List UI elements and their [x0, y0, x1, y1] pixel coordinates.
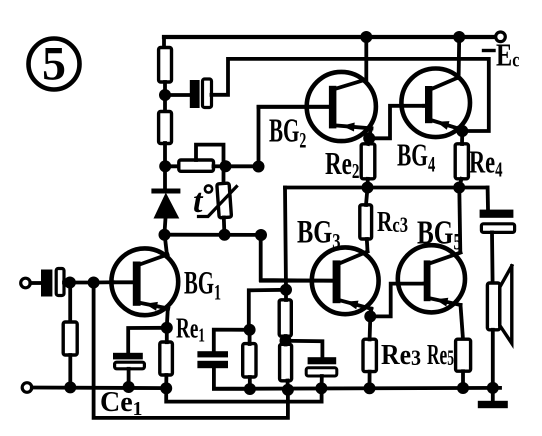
wire node J to R6: [248, 330, 252, 344]
node P7 junction (speaker): [487, 382, 499, 394]
resistor R4 (bias upper): [279, 300, 291, 336]
wire BG5 collector to node P9: [459, 188, 460, 252]
wire thermistor Rt to node F: [222, 218, 226, 235]
wire top supply rail: [164, 35, 496, 39]
wire R4 to node I: [284, 336, 288, 341]
node P6 junction (Re5 bottom): [457, 382, 469, 394]
transistor BG3: [261, 247, 379, 314]
node P5 junction (Re3 bottom): [364, 382, 376, 394]
thermistor Rt diagonal stroke: [199, 187, 237, 217]
node P4 junction (C4 bottom): [315, 382, 327, 394]
wire BG4 emitter to node E4: [458, 128, 462, 131]
wire node I to capacitor C4: [286, 341, 323, 358]
wire BG2 emitter to node E2: [369, 128, 371, 137]
label BG4: [397, 137, 435, 177]
wire node H to R4: [284, 290, 288, 300]
terminal -Ec (open circle): [496, 32, 506, 42]
wire node C to node D: [226, 164, 259, 168]
wire node N to BG1 base: [94, 280, 113, 284]
svg-text:BG1: BG1: [184, 264, 221, 306]
label Re3: [381, 339, 421, 370]
bypass loop over R3: [196, 145, 224, 166]
capacitor C3 plate (outlined): [56, 269, 64, 296]
wire BG3 emitter to node W: [368, 309, 373, 316]
label BG5: [417, 214, 462, 255]
svg-text:t: t: [193, 183, 204, 220]
node C junction: [220, 160, 232, 172]
wire R7 to bottom rail: [68, 355, 72, 387]
wire R2 to node B: [163, 143, 167, 166]
resistor Re3: [363, 339, 376, 371]
capacitor Ce1 plate (filled): [113, 353, 143, 360]
node I junction: [280, 335, 292, 347]
svg-text:Re4: Re4: [469, 144, 503, 182]
wire R1 to node A: [163, 82, 167, 95]
terminal ground (open circle): [22, 383, 32, 393]
wire C5 to speaker: [490, 232, 494, 283]
wire C1 to second rail: [212, 59, 489, 131]
capacitor C5 plate (upper, filled): [480, 210, 514, 218]
wire BG2 collector to top rail: [364, 38, 368, 79]
wire node E2 to Re2: [368, 138, 369, 144]
node P8 junction (Re2 bottom / Rc3 top): [362, 182, 374, 194]
node A junction: [159, 89, 171, 101]
wire node W to BG5 base: [370, 284, 425, 317]
wire feedback node N to node P3: [94, 283, 288, 418]
node P3 junction: [282, 384, 294, 396]
capacitor C3 plate (filled): [41, 270, 52, 297]
resistor R1 (top left): [159, 48, 172, 83]
ground symbol: [478, 401, 508, 408]
wire from top rail to resistor R1: [162, 37, 166, 49]
wire input terminal to C3: [30, 281, 41, 285]
node N junction: [88, 277, 100, 289]
transistor BG1: [111, 248, 178, 315]
wire node M to node N: [70, 281, 94, 285]
node L junction: [123, 381, 135, 393]
label Ce1: [100, 387, 142, 420]
capacitor C5 plate (lower, outlined): [481, 224, 514, 233]
node F junction (thermistor bottom): [219, 229, 231, 241]
node E junction: [159, 229, 171, 241]
wire BG1 emitter to node O: [167, 309, 168, 328]
resistor Re1: [160, 342, 173, 375]
wire bottom-right ground rail: [214, 386, 500, 391]
transistor BG5: [398, 245, 465, 312]
label -Ec: [496, 38, 519, 73]
label Re1: [176, 313, 205, 347]
wire node J to C2 top plate: [214, 330, 250, 351]
node O junction: [161, 322, 173, 334]
svg-text:Ce1: Ce1: [100, 387, 142, 420]
wire Rc3 to BG3 collector: [365, 239, 370, 251]
node P9 junction (Re4 bottom / BG5 collector): [453, 182, 465, 194]
label t degrees: [193, 183, 212, 220]
wire BG1 collector to node E: [165, 236, 167, 254]
wire BG5 emitter down to Re5: [461, 305, 464, 339]
wire node P7 to ground: [491, 388, 495, 400]
node V junction (top rail): [453, 31, 465, 43]
wire node D to BG2 base: [259, 107, 331, 167]
wire C2 to node P2: [214, 368, 250, 389]
capacitor C1 plate (filled): [190, 80, 200, 108]
capacitor C2 plate (lower): [197, 361, 228, 368]
svg-text:BG4: BG4: [397, 137, 435, 177]
wire rail node E to node G: [165, 233, 262, 237]
capacitor Ce1 plate (outlined): [115, 362, 145, 369]
node M junction: [64, 277, 76, 289]
wire Re2 to node P8: [366, 179, 370, 187]
label BG2: [269, 113, 306, 154]
capacitor C4 plate (lower, outlined): [306, 368, 337, 376]
svg-text:Re2: Re2: [325, 146, 359, 182]
wire node A to capacitor C1: [165, 93, 189, 97]
wire C3 to node M: [64, 281, 70, 285]
label Re4: [469, 144, 503, 182]
resistor Re4: [455, 144, 468, 179]
label Re5: [427, 340, 454, 371]
resistor R7 (input shunt): [63, 322, 77, 355]
capacitor C4 plate (upper, filled): [308, 357, 337, 364]
capacitor C2 plate (upper): [197, 351, 228, 357]
wire Re1 to node P1: [164, 375, 168, 388]
wire R5 to node P3: [286, 381, 290, 390]
capacitor C1 plate (outlined): [203, 79, 212, 108]
node U junction (top rail): [360, 31, 372, 43]
wire Re3 to node P5: [368, 372, 372, 388]
diode VD1 cathode bar: [151, 189, 180, 194]
wire C4 to node P4: [320, 376, 324, 389]
svg-text:Re3: Re3: [381, 339, 421, 370]
terminal input (open circle): [21, 278, 31, 288]
node P1 junction (Re1 bottom): [160, 382, 172, 394]
label Re2: [325, 146, 359, 182]
speaker cone: [500, 266, 512, 344]
wire node E2 to BG4 base: [369, 106, 426, 139]
svg-text:5: 5: [42, 38, 66, 91]
diode VD1 (triangle, pointing up): [154, 193, 180, 219]
wire second rail corner to node H: [285, 188, 286, 290]
resistor R6 (on C2 column): [243, 344, 256, 377]
svg-text:BG3: BG3: [297, 214, 341, 254]
thermistor Rt body: [217, 183, 232, 218]
resistor Re5: [456, 339, 471, 371]
wire mid rail to capacitor C5: [486, 188, 490, 210]
resistor Rc3: [360, 205, 372, 239]
node J junction: [244, 324, 256, 336]
wire speaker to node P7: [491, 330, 495, 388]
figure number 5 (circled): [29, 38, 80, 91]
wire BG4 collector to top rail: [457, 38, 461, 79]
wire R6 to node P2: [248, 377, 252, 389]
wire node P8 to Rc3: [366, 188, 368, 206]
transistor BG2: [259, 72, 376, 141]
wire node E4 to Re4: [460, 131, 464, 144]
speaker driver (rect): [487, 283, 499, 330]
wire node A down to R2: [163, 95, 167, 113]
svg-text:BG2: BG2: [269, 113, 306, 154]
node P2 junction: [244, 383, 256, 395]
wire node P1 to node P4 (lower link): [166, 388, 321, 401]
resistor R2 (below R1): [159, 112, 172, 144]
wire node M down to R7: [68, 283, 72, 323]
wire node O to Re1: [165, 328, 169, 342]
wire Re5 to node P6: [461, 371, 465, 388]
wire bottom-left ground rail: [32, 386, 166, 390]
resistor Re2: [361, 144, 375, 179]
wire mid rail (BG2/BG4 outputs): [285, 186, 488, 190]
wire node B to resistor R3: [165, 164, 179, 168]
node G junction (rail end): [255, 229, 267, 241]
node E4 junction: [456, 125, 468, 137]
wire node W to Re3: [368, 316, 372, 339]
wire diode VD1 to node E: [165, 218, 166, 233]
node B junction: [159, 160, 171, 172]
wire Re4 to node P9: [459, 179, 461, 187]
node W junction: [364, 310, 376, 322]
node K junction: [64, 381, 76, 393]
svg-text:Ec: Ec: [496, 38, 519, 73]
label BG3: [297, 214, 341, 254]
wire R3 to node C: [214, 164, 226, 168]
svg-text:Rc3: Rc3: [377, 207, 408, 237]
resistor R5 (bias lower): [280, 344, 292, 381]
wire node I to R5: [284, 341, 288, 345]
resistor R3 (horizontal): [179, 160, 214, 171]
wire node O to Ce1: [128, 328, 167, 353]
wire node C to thermistor Rt: [222, 166, 226, 184]
transistor BG4: [401, 69, 470, 138]
svg-text:BG5: BG5: [417, 214, 462, 255]
node H junction: [280, 284, 292, 296]
node E2 junction: [363, 132, 375, 144]
wire node B to diode VD1: [163, 166, 167, 189]
label BG1: [184, 264, 221, 306]
wire Ce1 to node L: [127, 369, 131, 387]
node D junction: [253, 161, 265, 173]
wire node G to BG3 base: [261, 235, 334, 281]
label Rc3: [377, 207, 408, 237]
wire node H to C2 column: [249, 290, 286, 330]
svg-text:Re1: Re1: [176, 313, 205, 347]
label -Ec minus sign: [484, 49, 495, 52]
svg-text:Re5: Re5: [427, 340, 454, 371]
